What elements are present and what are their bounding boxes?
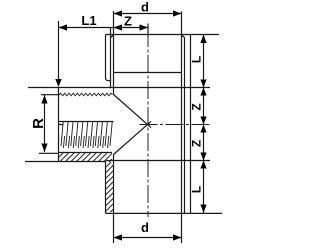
branch top surface / shoulder / L-Z extension <box>28 87 210 89</box>
d bottom left arrow <box>114 234 123 240</box>
branch face <box>58 88 60 163</box>
L1 left arrow <box>59 24 68 30</box>
lower shoulder with right extension <box>106 160 210 162</box>
left wall section hatch <box>106 162 114 212</box>
right arrow pair at Z-Z <box>200 117 206 125</box>
left outer wall lower <box>105 162 107 214</box>
svg-text:L: L <box>190 56 204 63</box>
branch wall hatch band <box>59 152 113 162</box>
branch axis centerline with right extension <box>59 124 64 126</box>
thread flank lines long <box>61 122 112 146</box>
right arrow pair at L-Z <box>200 80 206 88</box>
right outer wall <box>190 35 192 214</box>
svg-text:L1: L1 <box>81 13 96 28</box>
d top left arrow <box>114 10 123 16</box>
left socket bore / d extension upper <box>113 11 115 95</box>
d bottom right arrow <box>173 234 182 240</box>
right socket lip line <box>184 38 186 214</box>
d top right arrow <box>173 10 182 16</box>
L1 dimension line <box>59 27 114 29</box>
left socket mouth chamfer <box>111 35 114 38</box>
thread flank lines short <box>63 136 108 148</box>
Z top left arrow <box>114 24 123 30</box>
face pointer arrow <box>55 79 61 87</box>
branch bottom surface with left extension <box>25 161 106 163</box>
svg-text:Z: Z <box>190 103 204 110</box>
L1 extension line at branch face <box>58 21 60 79</box>
right bore line / d extension full height <box>181 12 183 244</box>
left outer wall upper with socket U bottom <box>106 35 111 81</box>
body bottom face with right extension <box>106 212 223 214</box>
R top extension <box>41 94 59 96</box>
R up arrow <box>41 95 47 104</box>
svg-text:R: R <box>30 118 47 129</box>
thread root bottom line <box>59 152 113 154</box>
R dimension line <box>44 95 46 152</box>
left socket lip line <box>110 27 112 89</box>
right down arrow bottom <box>200 205 206 214</box>
R bottom extension <box>39 152 59 154</box>
right socket mouth chamfer <box>182 35 185 38</box>
svg-text:Z: Z <box>124 14 132 29</box>
svg-text:d: d <box>141 0 149 15</box>
right up arrow top <box>200 35 206 44</box>
R down arrow <box>41 144 47 153</box>
right arrow pair at Z-L <box>200 153 206 161</box>
svg-text:Z: Z <box>190 140 204 147</box>
d dimension line bottom <box>114 237 182 239</box>
Z top right arrow <box>140 24 149 30</box>
Z extension stub <box>147 24 149 37</box>
svg-text:d: d <box>141 220 149 235</box>
left bore line lower / strip edge / d extension lower <box>113 155 115 244</box>
body top face with right extension <box>106 34 220 36</box>
bore chamfer lower arm <box>114 121 152 154</box>
thread top line <box>59 121 114 123</box>
bore chamfer upper arm <box>114 95 152 128</box>
d dimension line top <box>114 13 182 15</box>
socket stop line <box>114 72 182 74</box>
vertical centerline axis <box>147 29 149 217</box>
thread crest zigzag <box>59 93 113 96</box>
Z dimension line top <box>114 27 149 29</box>
svg-text:L: L <box>190 186 204 193</box>
right dimension line L Z Z L <box>203 35 205 214</box>
